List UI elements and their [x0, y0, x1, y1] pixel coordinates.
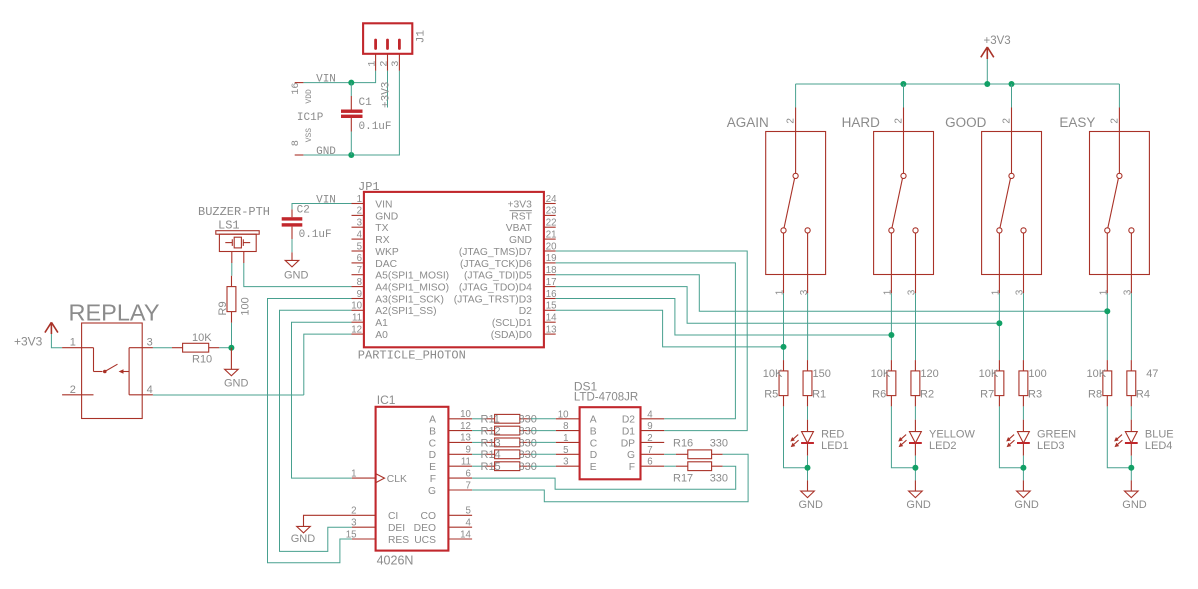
- svg-text:6: 6: [647, 457, 652, 468]
- JP1 pin 24 +3V3 stub: [544, 203, 556, 205]
- svg-text:C1: C1: [359, 97, 373, 109]
- JP1 pin 1 VIN stub: [352, 203, 364, 205]
- svg-text:5: 5: [466, 506, 471, 517]
- wire +3V3 bus to HARD pin2: [903, 84, 905, 108]
- svg-text:A0: A0: [375, 330, 388, 341]
- svg-text:1: 1: [563, 433, 568, 444]
- wire +3V3 bus to AGAIN pin2: [795, 84, 797, 108]
- svg-text:A4(SPI1_MISO): A4(SPI1_MISO): [375, 283, 449, 294]
- svg-text:7: 7: [357, 265, 362, 276]
- svg-text:DEI: DEI: [388, 523, 405, 534]
- svg-text:GND: GND: [375, 211, 398, 222]
- svg-text:LED1: LED1: [821, 440, 849, 452]
- wire GOOD pin1 down to net/pull-down: [998, 293, 1000, 360]
- wire R14 to DS1: [531, 453, 556, 455]
- svg-text:2: 2: [1109, 118, 1120, 124]
- wire net D3: JP1 pin16 to HARD switch: [556, 299, 892, 336]
- svg-text:EASY: EASY: [1059, 115, 1095, 130]
- svg-text:D: D: [429, 450, 436, 461]
- svg-text:9: 9: [647, 421, 652, 432]
- wire AGAIN pin3 down to series resistor: [807, 293, 809, 360]
- svg-text:3: 3: [1123, 289, 1134, 295]
- resistor R10: [172, 343, 219, 352]
- svg-text:D: D: [590, 450, 597, 461]
- wire R6 to junction: [891, 406, 915, 467]
- svg-text:RED: RED: [821, 429, 844, 441]
- svg-text:R1: R1: [812, 389, 826, 401]
- LED LED3: [1006, 420, 1030, 456]
- JP1 pin 17 (JTAG_TDO)D4 stub: [544, 286, 556, 288]
- svg-text:GND: GND: [291, 533, 316, 545]
- svg-text:4: 4: [647, 409, 653, 420]
- wire R12 to DS1: [531, 430, 556, 432]
- DS1 pin 10 A stub: [556, 418, 580, 420]
- svg-text:5: 5: [563, 445, 568, 456]
- svg-text:3: 3: [907, 289, 918, 295]
- svg-text:1: 1: [70, 337, 76, 349]
- counter IC1 4026N body: [376, 407, 449, 551]
- wire buzzer right leg to JP1 pin8 A4: [244, 263, 352, 287]
- DS1 pin 8 B stub: [556, 430, 580, 432]
- svg-text:(JTAG_TDO)D4: (JTAG_TDO)D4: [459, 283, 532, 294]
- wire DS1 G to R16: [664, 453, 676, 455]
- svg-text:GREEN: GREEN: [1037, 429, 1076, 441]
- JP1 pin 21 GND stub: [544, 238, 556, 240]
- wire +3V3 to REPLAY pin1: [51, 334, 62, 348]
- svg-text:HARD: HARD: [842, 115, 881, 130]
- svg-text:8: 8: [290, 140, 302, 146]
- wire R11 to DS1: [531, 418, 556, 420]
- svg-text:R6: R6: [872, 389, 886, 401]
- svg-text:C: C: [429, 438, 437, 449]
- svg-text:16: 16: [546, 289, 557, 300]
- resistor R17: [676, 462, 723, 471]
- svg-text:LED3: LED3: [1037, 440, 1065, 452]
- DS1 pin 1 C stub: [556, 441, 580, 443]
- svg-text:1: 1: [366, 61, 378, 67]
- svg-text:16: 16: [290, 82, 302, 94]
- resistor R15: [484, 462, 531, 471]
- svg-text:100: 100: [1028, 368, 1046, 380]
- svg-text:RX: RX: [375, 235, 389, 246]
- svg-text:A3(SPI1_SCK): A3(SPI1_SCK): [375, 294, 444, 305]
- svg-text:VIN: VIN: [375, 199, 392, 210]
- svg-text:100: 100: [239, 297, 251, 315]
- junction node at LED1: [805, 465, 811, 471]
- svg-text:E: E: [429, 462, 436, 473]
- svg-text:18: 18: [546, 265, 557, 276]
- resistor R13: [484, 438, 531, 447]
- wire net A1: JP1 pin11 to IC1 CLK: [292, 322, 352, 478]
- junction AGAIN line: [781, 344, 787, 350]
- svg-text:B: B: [429, 427, 436, 438]
- svg-text:E: E: [590, 462, 597, 473]
- svg-text:(SCL)D1: (SCL)D1: [492, 318, 532, 329]
- svg-text:GND: GND: [799, 499, 824, 511]
- IC1 pin 3 DEI stub: [352, 526, 376, 528]
- junction bus at HARD: [900, 81, 906, 87]
- JP1 pin 22 VBAT stub: [544, 226, 556, 228]
- DS1 pin 7 G stub: [641, 453, 665, 455]
- IC1 pin 6 F stub: [448, 477, 472, 479]
- svg-text:DEO: DEO: [414, 523, 436, 534]
- svg-text:R9: R9: [217, 301, 229, 315]
- svg-text:8: 8: [563, 421, 568, 432]
- junction node at LED2: [912, 465, 918, 471]
- wire +3V3 net stub at J1 pin2: [387, 71, 389, 108]
- DS1 pin 4 D2 stub: [641, 418, 665, 420]
- wire IC1 to R11: [472, 418, 484, 420]
- svg-text:2: 2: [70, 384, 76, 396]
- DS1 pin 3 E stub: [556, 465, 580, 467]
- svg-text:(JTAG_TRST)D3: (JTAG_TRST)D3: [454, 294, 532, 305]
- svg-text:D1: D1: [622, 427, 635, 438]
- svg-text:330: 330: [710, 473, 728, 485]
- wire HARD pin1 down to net/pull-down: [890, 293, 892, 360]
- svg-text:A: A: [590, 415, 597, 426]
- IC1 pin 7 G stub: [448, 489, 472, 491]
- svg-text:RST: RST: [511, 211, 532, 222]
- JP1 pin 23 RST stub: [544, 214, 556, 216]
- svg-text:JP1: JP1: [358, 180, 380, 194]
- IC1 pin 13 C stub: [448, 441, 472, 443]
- svg-text:VSS: VSS: [305, 128, 314, 143]
- svg-text:0.1uF: 0.1uF: [359, 121, 392, 133]
- svg-text:10: 10: [558, 409, 569, 420]
- svg-text:R5: R5: [764, 389, 778, 401]
- svg-text:R16: R16: [673, 437, 693, 449]
- svg-text:10K: 10K: [192, 332, 212, 344]
- ground GND at R10: [225, 348, 239, 376]
- switch AGAIN: [766, 108, 826, 294]
- wire IC1 to R15: [472, 465, 484, 467]
- svg-text:4026N: 4026N: [377, 554, 414, 568]
- svg-text:R3: R3: [1028, 389, 1042, 401]
- wire R3 to LED3: [1022, 406, 1024, 419]
- IC1 pin 15 RES stub: [352, 538, 376, 540]
- svg-text:R10: R10: [192, 353, 212, 365]
- svg-text:3: 3: [563, 457, 568, 468]
- wire IC1 to R14: [472, 453, 484, 455]
- svg-text:9: 9: [357, 289, 362, 300]
- JP1 pin 20 (JTAG_TMS)D7 stub: [544, 250, 556, 252]
- svg-text:C: C: [590, 438, 598, 449]
- J1 pin 1 stub: [375, 54, 377, 71]
- JP1 pin 19 (JTAG_TCK)D6 stub: [544, 262, 556, 264]
- IC1 pin 12 B stub: [448, 430, 472, 432]
- svg-text:15: 15: [546, 301, 557, 312]
- svg-text:J1: J1: [415, 30, 427, 44]
- buzzer LS1 BUZZER-PTH: [216, 231, 259, 263]
- svg-text:5: 5: [357, 241, 362, 252]
- svg-text:F: F: [629, 462, 635, 473]
- IC1 pin 1 CLK stub: [352, 477, 376, 479]
- svg-text:+3V3: +3V3: [984, 35, 1011, 47]
- wire R15 to DS1: [531, 465, 556, 467]
- wire LED1 cathode to junction: [807, 456, 809, 481]
- svg-text:R17: R17: [673, 473, 693, 485]
- svg-text:2: 2: [1002, 118, 1013, 124]
- switch HARD: [874, 108, 934, 294]
- svg-text:2: 2: [351, 506, 356, 517]
- wire C1 top: [350, 83, 352, 96]
- svg-text:AGAIN: AGAIN: [727, 115, 769, 130]
- IC1 pin 11 E stub: [448, 465, 472, 467]
- svg-text:R7: R7: [980, 389, 994, 401]
- switch EASY: [1090, 108, 1150, 294]
- svg-text:10K: 10K: [763, 368, 783, 380]
- wire net D7: JP1 pin20 to DS1 pin9 D1: [556, 251, 748, 431]
- JP1 pin 8 A4(SPI1_MISO) stub: [352, 286, 364, 288]
- ground GND at IC1 CI: [297, 526, 311, 533]
- wire EASY pin1 down to net/pull-down: [1106, 293, 1108, 360]
- IC1 pin 2 CI stub: [352, 514, 376, 516]
- svg-text:9: 9: [466, 445, 471, 456]
- svg-text:4: 4: [147, 384, 153, 396]
- wire +3V3 bus to EASY pin2: [1118, 84, 1120, 108]
- IC1 pin 10 A stub: [448, 418, 472, 420]
- JP1 pin 16 (JTAG_TRST)D3 stub: [544, 298, 556, 300]
- junction GND at C1: [348, 152, 354, 158]
- DS1 pin 6 F stub: [641, 465, 665, 467]
- ground GND at LED1: [801, 480, 815, 497]
- svg-text:R11: R11: [481, 414, 500, 426]
- svg-text:120: 120: [920, 368, 938, 380]
- wire LED4 cathode to junction: [1130, 456, 1132, 481]
- J1 pin 3 stub: [398, 54, 400, 71]
- svg-text:12: 12: [460, 421, 471, 432]
- supply +3V3 left: [45, 322, 58, 334]
- svg-text:1: 1: [1099, 289, 1110, 295]
- resistor R16: [676, 450, 723, 459]
- svg-text:LTD-4708JR: LTD-4708JR: [574, 391, 638, 403]
- svg-text:19: 19: [546, 253, 557, 264]
- svg-text:3: 3: [1015, 289, 1026, 295]
- switch GOOD: [982, 108, 1042, 294]
- wire VIN net: J1 pin1 to IC1P VDD: [303, 71, 375, 83]
- svg-text:10: 10: [351, 301, 362, 312]
- svg-text:GND: GND: [284, 269, 309, 281]
- svg-text:6: 6: [357, 253, 362, 264]
- wire IC1 to R12: [472, 430, 484, 432]
- JP1 pin 15 D2 stub: [544, 309, 556, 311]
- wire R5 to junction: [784, 406, 808, 467]
- svg-text:VDD: VDD: [305, 89, 314, 104]
- DS1 pin 5 D stub: [556, 453, 580, 455]
- svg-text:1: 1: [357, 194, 362, 205]
- resistor R12: [484, 426, 531, 435]
- wire net A3: JP1 pin9 to IC1 RES: [268, 299, 352, 563]
- JP1 pin 12 A0 stub: [352, 333, 364, 335]
- display DS1 LTD-4708JR body: [580, 407, 641, 479]
- DS1 pin 2 DP stub: [641, 441, 665, 443]
- svg-text:CO: CO: [421, 511, 436, 522]
- svg-text:3: 3: [357, 218, 362, 229]
- LED LED4: [1114, 420, 1138, 456]
- JP1 pin 11 A1 stub: [352, 321, 364, 323]
- svg-text:11: 11: [352, 313, 362, 324]
- JP1 pin 2 GND stub: [352, 214, 364, 216]
- wire GND net: J1 pin3 to IC1P VSS: [303, 71, 399, 155]
- svg-text:GND: GND: [509, 235, 532, 246]
- resistor R9: [227, 276, 236, 323]
- svg-text:CLK: CLK: [387, 474, 407, 485]
- svg-text:R14: R14: [481, 449, 501, 461]
- svg-text:GOOD: GOOD: [945, 115, 987, 130]
- svg-text:GND: GND: [906, 499, 931, 511]
- wire R17 to IC1 F: [472, 466, 736, 489]
- JP1 pin 14 (SCL)D1 stub: [544, 321, 556, 323]
- svg-text:20: 20: [546, 241, 557, 252]
- svg-text:2: 2: [357, 206, 362, 217]
- svg-text:7: 7: [466, 480, 471, 491]
- svg-text:A2(SPI1_SS): A2(SPI1_SS): [375, 306, 436, 317]
- svg-text:150: 150: [813, 368, 831, 380]
- JP1 pin 7 A5(SPI1_MOSI) stub: [352, 274, 364, 276]
- svg-text:21: 21: [546, 229, 557, 240]
- svg-text:3: 3: [390, 61, 402, 67]
- JP1 pin 18 (JTAG_TDI)D5 stub: [544, 274, 556, 276]
- JP1 pin 13 (SDA)D0 stub: [544, 333, 556, 335]
- svg-text:(JTAG_TMS)D7: (JTAG_TMS)D7: [459, 247, 532, 258]
- wire net D5: JP1 pin18 to EASY switch: [556, 275, 1108, 312]
- wire VIN to JP1 pin1: [292, 204, 352, 210]
- JP1 pin 4 RX stub: [352, 238, 364, 240]
- svg-text:VIN: VIN: [316, 195, 336, 207]
- RST overline: [510, 210, 532, 212]
- svg-text:14: 14: [460, 529, 471, 540]
- svg-text:0.1uF: 0.1uF: [299, 229, 332, 241]
- svg-text:G: G: [627, 450, 635, 461]
- wire AGAIN pin1 down to net/pull-down: [783, 293, 785, 360]
- wire R16 to IC1 G: [472, 454, 748, 502]
- svg-text:LED4: LED4: [1145, 440, 1173, 452]
- resistor R5 pull-down: [779, 360, 788, 406]
- svg-text:+3V3: +3V3: [508, 199, 533, 210]
- wire net D4: JP1 pin17 to GOOD switch: [556, 287, 1000, 324]
- svg-text:10K: 10K: [979, 368, 999, 380]
- DS1 pin 9 D1 stub: [641, 430, 665, 432]
- svg-text:R2: R2: [920, 389, 934, 401]
- svg-text:7: 7: [647, 445, 652, 456]
- JP1 pin 5 WKP stub: [352, 250, 364, 252]
- resistor R6 pull-down: [887, 360, 896, 406]
- junction node at LED4: [1128, 465, 1134, 471]
- svg-text:BUZZER-PTH: BUZZER-PTH: [198, 205, 270, 219]
- resistor R2 series: [911, 360, 920, 406]
- svg-text:IC1: IC1: [377, 393, 396, 407]
- svg-text:A: A: [429, 415, 436, 426]
- svg-text:BLUE: BLUE: [1145, 429, 1174, 441]
- svg-text:1: 1: [351, 468, 356, 479]
- svg-text:2: 2: [378, 61, 390, 67]
- svg-text:2: 2: [894, 118, 905, 124]
- svg-text:3: 3: [147, 337, 153, 349]
- svg-text:GND: GND: [1014, 499, 1039, 511]
- svg-text:C2: C2: [297, 204, 310, 216]
- wire net A2: JP1 pin10 to IC1 DEI: [280, 310, 352, 551]
- junction node at LED3: [1020, 465, 1026, 471]
- svg-text:330: 330: [519, 449, 537, 461]
- svg-text:330: 330: [710, 437, 728, 449]
- svg-text:12: 12: [351, 324, 362, 335]
- svg-text:13: 13: [546, 324, 557, 335]
- ground GND at LED4: [1125, 480, 1139, 497]
- svg-text:330: 330: [519, 414, 537, 426]
- svg-text:(JTAG_TCK)D6: (JTAG_TCK)D6: [460, 259, 532, 270]
- wire IC1 CI pin2 to GND: [304, 515, 352, 526]
- svg-text:LED2: LED2: [929, 440, 957, 452]
- svg-text:GND: GND: [316, 146, 336, 158]
- wire DS1 F to R17: [664, 465, 676, 467]
- svg-text:17: 17: [546, 277, 557, 288]
- wire HARD pin3 down to series resistor: [915, 293, 917, 360]
- wire LED3 cathode to junction: [1022, 456, 1024, 481]
- svg-text:PARTICLE_PHOTON: PARTICLE_PHOTON: [358, 348, 466, 362]
- ground GND at C2: [285, 252, 299, 267]
- svg-text:6: 6: [466, 468, 471, 479]
- svg-text:R4: R4: [1136, 389, 1150, 401]
- J1 pin 2 stub: [387, 54, 389, 71]
- JP1 pin 10 A2(SPI1_SS) stub: [352, 309, 364, 311]
- svg-text:10K: 10K: [1087, 368, 1107, 380]
- junction GOOD line: [996, 320, 1002, 326]
- wire GOOD pin3 down to series resistor: [1023, 293, 1025, 360]
- JP1 pin 9 A3(SPI1_SCK) stub: [352, 298, 364, 300]
- switch REPLAY S1: [62, 323, 153, 419]
- connector J1: [363, 23, 412, 54]
- wire R4 to LED4: [1130, 406, 1132, 419]
- resistor R3 series: [1019, 360, 1028, 406]
- svg-text:VBAT: VBAT: [506, 223, 533, 234]
- svg-text:GND: GND: [224, 378, 249, 390]
- IC1 pin 5 CO stub: [448, 514, 472, 516]
- JP1 pin 3 TX stub: [352, 226, 364, 228]
- junction HARD line: [888, 332, 894, 338]
- module JP1 PARTICLE_PHOTON body: [364, 192, 544, 347]
- svg-text:10K: 10K: [871, 368, 891, 380]
- wire R10 to junction: [219, 347, 231, 349]
- svg-text:330: 330: [519, 426, 537, 438]
- supply +3V3 top: [981, 47, 994, 59]
- svg-text:R8: R8: [1088, 389, 1102, 401]
- wire buzzer left leg to R9: [231, 263, 233, 276]
- svg-text:WKP: WKP: [375, 247, 399, 258]
- wire net D2: JP1 pin15 to AGAIN switch: [556, 310, 784, 347]
- svg-text:R13: R13: [481, 437, 501, 449]
- svg-text:TX: TX: [375, 223, 388, 234]
- wire C1 bottom: [350, 132, 352, 156]
- capacitor C1: [341, 96, 363, 132]
- wire net A0: JP1 pin12 to REPLAY pin4: [304, 334, 352, 395]
- resistor R11: [484, 414, 531, 423]
- ground GND at LED3: [1017, 480, 1031, 497]
- IC1 pin 4 DEO stub: [448, 526, 472, 528]
- resistor R8 pull-down: [1103, 360, 1112, 406]
- resistor R14: [484, 450, 531, 459]
- svg-text:DAC: DAC: [375, 259, 397, 270]
- svg-text:A1: A1: [375, 318, 388, 329]
- svg-text:G: G: [428, 486, 436, 497]
- svg-text:330: 330: [519, 437, 537, 449]
- wire +3V3 stem to bus: [986, 59, 988, 84]
- wire net D6: JP1 pin19 to DS1 pin4 D2: [556, 263, 736, 419]
- resistor R4 series: [1127, 360, 1136, 406]
- svg-text:1: 1: [883, 289, 894, 295]
- wire R8 to junction: [1107, 406, 1131, 467]
- ground GND at LED2: [909, 480, 923, 497]
- svg-text:LS1: LS1: [218, 219, 240, 233]
